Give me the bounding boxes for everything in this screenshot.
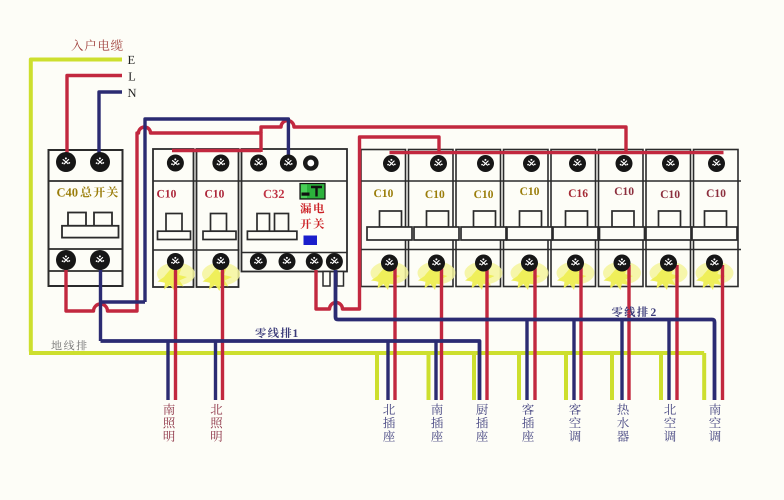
- terminal screw right module 6 top: [616, 155, 633, 172]
- wire L from C32 output up to right box (hop over N out): [316, 137, 439, 309]
- terminal screw C10 module1 top: [167, 155, 184, 172]
- terminal screw C32 bottom L out: [306, 253, 323, 270]
- terminal screw right module 3 top: [477, 155, 494, 172]
- wire L drop to south aircon: [721, 265, 724, 400]
- wire N drop from bar2 to water heater: [620, 320, 623, 401]
- wire L drop to living aircon: [579, 265, 582, 400]
- middle box module 1 C10: [153, 149, 194, 287]
- toggle switch of right module 8: [692, 211, 737, 240]
- terminal screw C32 top L: [250, 155, 267, 172]
- glow under right module 7 bottom terminal: [650, 262, 688, 291]
- toggle switch of right module 3: [461, 211, 506, 240]
- wire L incoming to main breaker: [67, 76, 122, 157]
- wire N drop from bar1 to south lighting: [166, 341, 169, 400]
- terminal screw right module 6 bottom: [614, 255, 631, 272]
- toggle switch of right module 4: [507, 211, 552, 240]
- terminal screw right module 8 top: [708, 155, 725, 172]
- right box inner lines: [361, 181, 741, 250]
- main breaker inner lines: [49, 181, 123, 271]
- terminal screw main top L: [56, 152, 76, 172]
- label neutral bar 1 零线排1: [255, 327, 291, 338]
- wire N branch toward C32: [101, 300, 146, 303]
- label N: [128, 89, 136, 97]
- label load south aircon 南空调: [709, 403, 721, 441]
- middle box module 2 C10: [197, 149, 239, 287]
- toggle switch of middle C10 module2: [203, 214, 236, 240]
- wire N drop from bar1 to north lighting: [214, 341, 217, 400]
- label 漏电: [300, 203, 324, 214]
- label C10 right module 7: [661, 190, 680, 198]
- wire earth drop to south socket: [427, 353, 431, 400]
- label load south lighting 南照明: [163, 403, 174, 441]
- right box module 4: [504, 150, 549, 287]
- terminal screw right module 3 bottom: [475, 255, 492, 272]
- glow under right module 8 bottom terminal: [696, 262, 734, 291]
- wire N incoming to main breaker: [99, 92, 122, 156]
- wire L drop to north lighting: [221, 264, 224, 400]
- wire N from main breaker down to neutral bar 1: [99, 267, 102, 341]
- toggle switch of right module 6: [600, 211, 645, 240]
- C32 green test block: [300, 184, 325, 200]
- middle box inner lines: [153, 181, 347, 253]
- wire N drop from bar1 to south socket: [434, 341, 437, 400]
- wire earth drop to south aircon: [702, 353, 706, 400]
- wire L bus across right box terminals: [390, 151, 724, 154]
- wire N drop from bar2 to north aircon: [667, 320, 670, 401]
- wire L bus over middle C10 tops: [172, 149, 261, 152]
- wire earth drop to north aircon: [659, 353, 663, 400]
- terminal screw right module 2 top: [430, 155, 447, 172]
- label earth bar 地线排: [51, 340, 86, 350]
- wire L drop to south lighting: [174, 264, 177, 400]
- label 开关: [300, 218, 324, 229]
- glow under C10 module1 bottom terminal: [157, 263, 195, 292]
- toggle switch of right module 5: [553, 211, 598, 240]
- glow under right module 2 bottom terminal: [418, 262, 456, 291]
- terminal screw C32 bottom 2: [279, 253, 296, 270]
- label C10 right module 1: [374, 189, 393, 197]
- right box module 6: [599, 150, 644, 287]
- glow under right module 6 bottom terminal: [603, 262, 641, 291]
- toggle switch of main breaker QF0: [62, 213, 119, 238]
- terminal screw right module 1 top: [383, 155, 400, 172]
- label load north aircon 北空调: [664, 404, 676, 442]
- wire neutral bar 1 零线排1: [101, 341, 480, 400]
- wire L drop to north aircon: [675, 265, 678, 400]
- terminal screw C10 module1 bottom: [167, 253, 184, 270]
- right box module 3: [456, 150, 501, 287]
- glow under right module 1 bottom terminal: [371, 262, 409, 291]
- C32 blue indicator: [304, 236, 318, 246]
- right box module 5: [551, 150, 596, 287]
- terminal screw C32 top N: [280, 155, 297, 172]
- label load water heater 热水器: [617, 404, 629, 442]
- wire L bus to right box (hop over C32 N drop): [261, 121, 626, 154]
- toggle switch of right module 7: [646, 211, 691, 240]
- label load kitchen socket 厨插座: [476, 404, 488, 442]
- label E: [128, 56, 135, 64]
- terminal screw main bottom L: [56, 250, 76, 270]
- terminal screw right module 7 bottom: [660, 255, 677, 272]
- label L: [129, 72, 136, 80]
- wire L drop to kitchen socket: [485, 265, 488, 400]
- glow under C10 module2 bottom terminal: [202, 263, 240, 292]
- terminal screw right module 7 top: [662, 155, 679, 172]
- right box module 7: [646, 150, 691, 287]
- label load living socket 客插座: [522, 403, 534, 441]
- terminal screw right module 1 bottom: [381, 255, 398, 272]
- glow under right module 5 bottom terminal: [557, 262, 595, 291]
- wire N drop from bar2 to living socket: [525, 320, 528, 401]
- label load north lighting 北照明: [211, 404, 223, 442]
- right box module 1: [361, 150, 406, 287]
- label C10 right module 6: [615, 187, 634, 195]
- label C10 module1: [157, 190, 176, 198]
- terminal screw C32 bottom 1: [250, 253, 267, 270]
- toggle switch of C32 leakage breaker: [247, 214, 297, 240]
- wire L drop to south socket: [440, 265, 443, 400]
- label load south socket 南插座: [431, 403, 443, 441]
- wire L drop to north socket: [393, 265, 396, 400]
- toggle switch of right module 1: [367, 211, 412, 240]
- terminal screw C10 module2 bottom: [212, 253, 229, 270]
- wire earth drop to living socket: [517, 353, 521, 400]
- wire earth drop to kitchen socket: [472, 353, 476, 400]
- C32 DIN clip prongs: [323, 272, 344, 287]
- label C10 module2: [205, 190, 224, 198]
- wire earth drop to water heater: [610, 353, 614, 400]
- terminal screw right module 2 bottom: [428, 255, 445, 272]
- glow under right module 4 bottom terminal: [511, 262, 549, 291]
- toggle switch of middle C10 module1: [158, 214, 191, 240]
- label load living aircon 客空调: [569, 403, 581, 441]
- wire L drop to water heater: [627, 265, 630, 400]
- terminal screw right module 4 bottom: [521, 255, 538, 272]
- label C10 right module 4: [520, 187, 539, 195]
- label C40 main switch: [57, 188, 77, 196]
- wire N riser and top bus into C32 input: [145, 119, 288, 302]
- terminal screw right module 5 bottom: [567, 255, 584, 272]
- label C10 right module 8: [707, 189, 726, 197]
- wire L from main breaker output up to bus (hops over N wires): [66, 127, 261, 311]
- label C16 right module 5: [569, 189, 588, 197]
- middle box module 3 leakage breaker C32: [242, 149, 348, 272]
- wire earth drop to north socket: [375, 353, 379, 400]
- label C32: [264, 190, 284, 198]
- main breaker box QF0 C40: [49, 150, 123, 286]
- wire E incoming earth (yellow-green): [31, 60, 122, 352]
- wire N drop from bar2 to living aircon: [572, 320, 575, 401]
- right box module 2: [409, 150, 454, 287]
- wire earth bus 地线排: [29, 351, 704, 355]
- wire L drop to living socket: [533, 265, 536, 400]
- terminal screw main bottom N: [90, 250, 110, 270]
- label load north socket 北插座: [383, 404, 395, 442]
- terminal screw C10 module2 top: [212, 155, 229, 172]
- label incoming cable 入户电缆: [71, 39, 122, 51]
- wire earth drop to living aircon: [564, 353, 568, 400]
- terminal screw right module 4 top: [523, 155, 540, 172]
- glow under right module 3 bottom terminal: [465, 262, 503, 291]
- wire N drop from bar1 to north socket: [386, 341, 389, 400]
- toggle switch of right module 2: [414, 211, 459, 240]
- terminal screw C32 bottom N out: [326, 253, 343, 270]
- terminal screw right module 5 top: [569, 155, 586, 172]
- terminal screw main top N: [90, 152, 110, 172]
- right box module 8: [694, 150, 739, 287]
- wire neutral bar 2 零线排2 from C32 output: [336, 270, 715, 400]
- label C10 right module 3: [474, 190, 493, 198]
- terminal screw right module 8 bottom: [706, 255, 723, 272]
- terminal C32 top aux (white): [305, 157, 316, 168]
- label neutral bar 2 零线排2: [612, 306, 648, 317]
- label C10 right module 2: [425, 190, 444, 198]
